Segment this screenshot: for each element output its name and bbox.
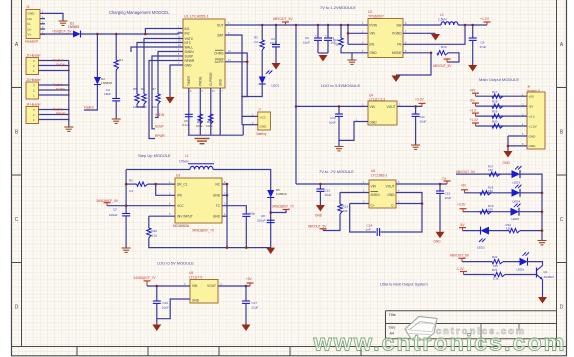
svg-text:+3.3: +3.3 bbox=[470, 108, 477, 112]
svg-text:R6: R6 bbox=[141, 87, 145, 91]
svg-text:0.1uF: 0.1uF bbox=[182, 123, 190, 127]
svg-text:LDO to 5V MODULE: LDO to 5V MODULE bbox=[157, 261, 194, 266]
svg-text:150: 150 bbox=[506, 226, 511, 230]
svg-text:R1: R1 bbox=[119, 58, 123, 62]
svg-text:LDO to 3.3VMODULE: LDO to 3.3VMODULE bbox=[321, 83, 360, 88]
svg-text:LTC1983-3: LTC1983-3 bbox=[371, 174, 387, 178]
svg-text:#BVOUT_5V: #BVOUT_5V bbox=[433, 64, 452, 68]
svg-text:R2: R2 bbox=[129, 179, 133, 183]
svg-text:SUSP: SUSP bbox=[155, 125, 164, 129]
svg-text:R17: R17 bbox=[492, 90, 498, 94]
svg-text:GND: GND bbox=[185, 63, 193, 67]
svg-text:+3.3: +3.3 bbox=[529, 114, 535, 118]
svg-text:+5V: +5V bbox=[470, 88, 477, 92]
svg-text:Header5: Header5 bbox=[25, 40, 38, 44]
svg-text:-1.2V: -1.2V bbox=[456, 267, 464, 271]
svg-text:J7: J7 bbox=[258, 108, 262, 112]
svg-text:D: D bbox=[15, 305, 19, 311]
svg-text:150: 150 bbox=[488, 189, 493, 193]
svg-text:ACPR: ACPR bbox=[215, 60, 225, 64]
svg-text:Fault-b: Fault-b bbox=[53, 83, 63, 87]
svg-text:R18: R18 bbox=[492, 100, 498, 104]
svg-text:MODE: MODE bbox=[392, 51, 402, 55]
svg-text:+1.2V: +1.2V bbox=[480, 17, 490, 21]
svg-text:OUT: OUT bbox=[217, 23, 224, 27]
svg-text:PGND: PGND bbox=[392, 32, 402, 36]
svg-text:170uH: 170uH bbox=[179, 160, 189, 164]
svg-text:GND: GND bbox=[260, 124, 268, 128]
svg-text:-7V: -7V bbox=[441, 177, 447, 181]
svg-text:100p: 100p bbox=[249, 212, 256, 216]
svg-text:Title: Title bbox=[389, 312, 397, 317]
svg-text:GND: GND bbox=[370, 121, 378, 125]
svg-text:U6: U6 bbox=[371, 169, 375, 173]
svg-text:IN2: IN2 bbox=[185, 31, 190, 35]
svg-text:FB: FB bbox=[397, 43, 401, 47]
svg-text:GND: GND bbox=[370, 51, 378, 55]
svg-text:1N5819: 1N5819 bbox=[68, 25, 79, 29]
svg-text:Fault-A: Fault-A bbox=[53, 59, 64, 63]
svg-text:VCC: VCC bbox=[260, 116, 267, 120]
svg-text:34063@CF_5V: 34063@CF_5V bbox=[96, 199, 119, 203]
svg-text:5.1k: 5.1k bbox=[152, 234, 158, 238]
svg-text:D: D bbox=[560, 305, 564, 311]
svg-text:C3: C3 bbox=[113, 208, 117, 212]
svg-text:1N5819: 1N5819 bbox=[276, 192, 287, 196]
svg-text:150: 150 bbox=[493, 264, 498, 268]
svg-text:+1.2V: +1.2V bbox=[470, 118, 479, 122]
svg-text:Fault-b: Fault-b bbox=[84, 106, 94, 110]
svg-text:LED3: LED3 bbox=[513, 181, 521, 185]
svg-text:7V to -7V MODULE: 7V to -7V MODULE bbox=[319, 169, 354, 174]
svg-text:C17: C17 bbox=[252, 301, 258, 305]
svg-text:+: + bbox=[325, 34, 327, 38]
svg-text:NC: NC bbox=[28, 17, 33, 21]
svg-text:GND: GND bbox=[529, 134, 537, 138]
svg-text:VOUT: VOUT bbox=[386, 184, 395, 188]
svg-text:#BVOUT_5V: #BVOUT_5V bbox=[456, 170, 476, 174]
svg-text:C8: C8 bbox=[261, 214, 265, 218]
svg-text:5.1k: 5.1k bbox=[493, 277, 499, 281]
svg-text:C9: C9 bbox=[481, 41, 485, 45]
svg-text:Battery: Battery bbox=[257, 132, 268, 136]
svg-text:LED5: LED5 bbox=[512, 217, 520, 221]
svg-text:10uF: 10uF bbox=[162, 305, 169, 309]
svg-text:34063@CF_7V: 34063@CF_7V bbox=[192, 229, 215, 233]
svg-text:75k: 75k bbox=[334, 43, 339, 47]
svg-text:LT1117-3.3: LT1117-3.3 bbox=[369, 97, 385, 101]
svg-text:100k: 100k bbox=[206, 124, 213, 128]
svg-text:R5: R5 bbox=[133, 87, 137, 91]
svg-text:R7: R7 bbox=[152, 87, 156, 91]
svg-text:J3 Header: J3 Header bbox=[26, 78, 42, 82]
svg-text:GND: GND bbox=[434, 240, 442, 244]
svg-text:10uF: 10uF bbox=[445, 196, 452, 200]
svg-text:150: 150 bbox=[488, 208, 493, 212]
svg-text:2.0: 2.0 bbox=[254, 40, 259, 44]
svg-text:SHDN: SHDN bbox=[371, 193, 381, 197]
svg-text:GND: GND bbox=[213, 215, 221, 219]
svg-text:34063@CF_7V: 34063@CF_7V bbox=[134, 276, 157, 280]
svg-text:R21: R21 bbox=[492, 268, 498, 272]
svg-text:TPS62007: TPS62007 bbox=[368, 14, 384, 18]
svg-text:SHDN: SHDN bbox=[185, 50, 195, 54]
svg-text:-5V: -5V bbox=[470, 98, 476, 102]
svg-text:CLPROG: CLPROG bbox=[209, 72, 213, 86]
svg-text:VCC: VCC bbox=[177, 204, 184, 208]
svg-text:SW: SW bbox=[396, 23, 401, 27]
svg-text:PVIN: PVIN bbox=[370, 23, 378, 27]
svg-text:D+: D+ bbox=[28, 27, 32, 31]
svg-text:10k: 10k bbox=[152, 105, 157, 109]
svg-text:R16: R16 bbox=[441, 45, 447, 49]
svg-text:Main Output MODULE: Main Output MODULE bbox=[479, 77, 519, 82]
svg-text:R20: R20 bbox=[492, 120, 498, 124]
svg-text:+5V: +5V bbox=[246, 277, 253, 281]
svg-text:PROG: PROG bbox=[199, 76, 203, 86]
svg-text:GND: GND bbox=[529, 144, 537, 148]
svg-text:1uF: 1uF bbox=[366, 228, 371, 232]
svg-text:10uF: 10uF bbox=[329, 121, 336, 125]
svg-text:D-: D- bbox=[28, 22, 31, 26]
svg-text:Charging Management MODCEL: Charging Management MODCEL bbox=[109, 10, 170, 15]
svg-text:RPWR: RPWR bbox=[185, 59, 195, 63]
svg-text:GND: GND bbox=[213, 194, 221, 198]
svg-text:NC: NC bbox=[215, 182, 220, 186]
svg-text:WALL: WALL bbox=[185, 45, 194, 49]
svg-text:R22: R22 bbox=[492, 255, 498, 259]
svg-text:U1 LTC4055-1: U1 LTC4055-1 bbox=[184, 15, 209, 19]
svg-text:Q1: Q1 bbox=[544, 270, 548, 274]
svg-text:LED1: LED1 bbox=[272, 84, 280, 88]
svg-text:0.2: 0.2 bbox=[129, 189, 134, 193]
svg-text:220uF: 220uF bbox=[257, 218, 266, 222]
svg-text:L1: L1 bbox=[185, 154, 189, 158]
svg-text:#BVOUT_5V: #BVOUT_5V bbox=[273, 17, 293, 21]
svg-text:RPWR: RPWR bbox=[56, 112, 66, 116]
svg-text:R13: R13 bbox=[343, 205, 349, 209]
svg-text:+5V: +5V bbox=[529, 95, 536, 99]
svg-text:J4 Header: J4 Header bbox=[26, 103, 42, 107]
svg-text:VIN: VIN bbox=[370, 105, 376, 109]
svg-text:20k: 20k bbox=[343, 209, 348, 213]
svg-text:CHRG: CHRG bbox=[214, 51, 224, 55]
svg-text:SHDN: SHDN bbox=[56, 63, 66, 67]
svg-text:SUSP: SUSP bbox=[185, 54, 194, 58]
svg-text:LED2: LED2 bbox=[477, 245, 485, 249]
svg-text:J1: J1 bbox=[26, 5, 30, 9]
svg-text:1N5818: 1N5818 bbox=[101, 81, 112, 85]
svg-text:C5: C5 bbox=[305, 36, 309, 40]
svg-text:SUSP: SUSP bbox=[56, 88, 65, 92]
svg-text:R14: R14 bbox=[333, 38, 339, 42]
svg-text:100uF: 100uF bbox=[109, 213, 118, 217]
svg-text:100k: 100k bbox=[196, 124, 203, 128]
svg-text:22uF: 22uF bbox=[252, 305, 259, 309]
svg-text:MC34063A: MC34063A bbox=[173, 224, 190, 228]
svg-text:C13: C13 bbox=[445, 192, 451, 196]
svg-text:-5V: -5V bbox=[460, 223, 466, 227]
svg-text:BAT: BAT bbox=[218, 33, 224, 37]
svg-text:VIN: VIN bbox=[192, 284, 198, 288]
svg-text:Step Up MODULE: Step Up MODULE bbox=[138, 153, 171, 158]
svg-text:+1.2V: +1.2V bbox=[529, 124, 538, 128]
svg-text:7V to 1.2VMODULE: 7V to 1.2VMODULE bbox=[320, 5, 356, 10]
svg-text:C-: C- bbox=[391, 203, 394, 207]
svg-text:#BVOUT_5V: #BVOUT_5V bbox=[450, 253, 470, 257]
svg-text:USB to Mult Output System: USB to Mult Output System bbox=[380, 282, 428, 287]
svg-text:DR_C1: DR_C1 bbox=[177, 182, 188, 186]
svg-text:SHDN: SHDN bbox=[155, 113, 165, 117]
svg-text:10uF: 10uF bbox=[303, 41, 310, 45]
svg-text:VOUT: VOUT bbox=[387, 105, 396, 109]
svg-text:U3: U3 bbox=[176, 174, 180, 178]
svg-text:#BVOUT_5V: #BVOUT_5V bbox=[308, 224, 327, 228]
svg-text:+3.3V: +3.3V bbox=[457, 202, 466, 206]
svg-text:C10: C10 bbox=[330, 116, 336, 120]
svg-text:R19: R19 bbox=[492, 110, 498, 114]
svg-text:C: C bbox=[15, 217, 19, 223]
svg-text:LED4: LED4 bbox=[513, 199, 521, 203]
svg-text:J2 Header: J2 Header bbox=[26, 54, 42, 58]
svg-text:GND: GND bbox=[218, 78, 222, 86]
svg-text:L2: L2 bbox=[440, 13, 444, 17]
svg-text:C12: C12 bbox=[325, 189, 331, 193]
svg-text:www.cntronics.com: www.cntronics.com bbox=[313, 330, 565, 356]
svg-text:GND: GND bbox=[192, 298, 200, 302]
svg-text:LED6: LED6 bbox=[517, 268, 525, 272]
svg-text:NTC: NTC bbox=[185, 41, 192, 45]
svg-text:+3.3V: +3.3V bbox=[415, 98, 425, 102]
svg-text:C: C bbox=[560, 217, 564, 223]
svg-text:+5V: +5V bbox=[461, 183, 468, 187]
svg-text:1.5uH: 1.5uH bbox=[438, 18, 447, 22]
svg-text:R3: R3 bbox=[254, 36, 258, 40]
svg-text:V+: V+ bbox=[28, 33, 32, 37]
svg-text:C+: C+ bbox=[371, 203, 375, 207]
svg-text:INV INPUT: INV INPUT bbox=[177, 215, 193, 219]
svg-text:34063@CF_7V: 34063@CF_7V bbox=[272, 205, 295, 209]
svg-text:IPK: IPK bbox=[177, 194, 183, 198]
svg-text:C11: C11 bbox=[420, 115, 426, 119]
svg-text:47uF: 47uF bbox=[480, 45, 487, 49]
svg-text:C16: C16 bbox=[163, 301, 169, 305]
svg-text:10uF: 10uF bbox=[420, 120, 427, 124]
svg-text:10uF: 10uF bbox=[325, 193, 332, 197]
svg-text:GND: GND bbox=[315, 214, 323, 218]
svg-text:+5V@CF_5V: +5V@CF_5V bbox=[52, 30, 72, 34]
svg-text:TIMER: TIMER bbox=[187, 75, 191, 86]
svg-text:150: 150 bbox=[488, 168, 493, 172]
svg-text:2N3904: 2N3904 bbox=[544, 275, 555, 279]
svg-text:Header 6: Header 6 bbox=[527, 88, 540, 92]
svg-text:GND: GND bbox=[28, 12, 36, 16]
svg-text:VIN: VIN bbox=[371, 184, 377, 188]
svg-text:+: + bbox=[315, 34, 317, 38]
svg-text:VIN: VIN bbox=[370, 32, 376, 36]
svg-text:RPWR: RPWR bbox=[155, 134, 165, 138]
svg-text:18uF: 18uF bbox=[104, 92, 111, 96]
svg-text:Fault-b: Fault-b bbox=[53, 108, 63, 112]
svg-text:IN1: IN1 bbox=[185, 27, 190, 31]
svg-text:GND: GND bbox=[387, 193, 395, 197]
svg-text:R10: R10 bbox=[152, 229, 158, 233]
svg-text:TC: TC bbox=[216, 204, 221, 208]
svg-text:VOUT: VOUT bbox=[207, 284, 216, 288]
svg-text:LT1117-5: LT1117-5 bbox=[189, 276, 203, 280]
svg-text:EN: EN bbox=[370, 43, 375, 47]
svg-text:GND: GND bbox=[503, 161, 511, 165]
